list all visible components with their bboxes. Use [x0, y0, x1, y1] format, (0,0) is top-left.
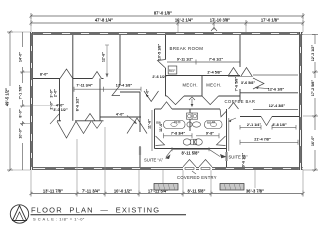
svg-text:RR: RR — [207, 121, 212, 125]
svg-text:12’-6”: 12’-6” — [101, 52, 105, 62]
sink counter left — [164, 121, 186, 129]
restroom block outline — [155, 109, 227, 149]
svg-text:SUITE “A”: SUITE “A” — [144, 158, 164, 163]
suite B north wall y116 — [240, 116, 261, 118]
title logo circle — [10, 205, 28, 223]
bottom dimension row — [30, 188, 305, 197]
svg-text:10’-2 1/4”: 10’-2 1/4” — [175, 18, 193, 23]
outer wall top — [30, 32, 303, 35]
corridor wall x140 — [139, 92, 141, 132]
corridor door near coffee bar — [229, 103, 239, 110]
suite B door swing — [261, 117, 272, 126]
svg-text:12’-4 3/8”: 12’-4 3/8” — [269, 104, 286, 108]
svg-text:36’-3 7/8”: 36’-3 7/8” — [246, 188, 264, 193]
svg-text:COFFEE BAR: COFFEE BAR — [225, 99, 256, 104]
interior wall horizontal y117 — [100, 116, 141, 118]
toilets — [183, 139, 202, 145]
mech divider wall x206 — [201, 76, 203, 97]
restroom top-left door swing — [144, 91, 159, 102]
svg-text:3’-6 5/8”: 3’-6 5/8” — [241, 81, 256, 85]
svg-text:17’-2 5/8”: 17’-2 5/8” — [311, 80, 315, 97]
svg-text:17’-10 3/8”: 17’-10 3/8” — [210, 18, 230, 23]
break room door swing — [158, 60, 166, 69]
water heater boxes — [187, 113, 198, 119]
svg-text:11’-6”: 11’-6” — [147, 119, 151, 129]
svg-text:8’-0”: 8’-0” — [40, 73, 48, 77]
top extension lines — [31, 16, 303, 32]
center lav fixtures — [187, 122, 201, 127]
svg-text:16’-0”: 16’-0” — [311, 136, 315, 146]
left inner dimension column — [19, 32, 31, 170]
restroom center wall — [189, 109, 191, 131]
restroom bottom corner door swings — [156, 136, 165, 146]
dim 21-4 7/8 — [240, 138, 298, 145]
svg-text:7’-6 5/8”: 7’-6 5/8” — [234, 77, 238, 92]
svg-text:10’-0”: 10’-0” — [19, 128, 23, 138]
interior wall horizontal y77.5 — [33, 78, 60, 80]
svg-text:17’-0 1/8”: 17’-0 1/8” — [261, 18, 279, 23]
SUITE B label — [229, 155, 249, 160]
svg-text:9’-8”: 9’-8” — [206, 132, 214, 136]
svg-text:87’-0 1/8”: 87’-0 1/8” — [154, 11, 172, 16]
restroom top-right door swing — [220, 109, 227, 117]
small door swing y77 — [92, 72, 101, 79]
svg-text:8’-6 1/2”: 8’-6 1/2” — [76, 97, 80, 112]
svg-text:SUITE “B”: SUITE “B” — [229, 155, 249, 160]
REF box — [168, 66, 177, 74]
svg-text:10’-0 1/2”: 10’-0 1/2” — [114, 188, 132, 193]
svg-text:3’-0”: 3’-0” — [50, 89, 54, 97]
svg-text:21’-4 7/8”: 21’-4 7/8” — [254, 138, 271, 142]
suite separation walls — [226, 149, 228, 168]
svg-text:10’-5 1/8”: 10’-5 1/8” — [158, 44, 162, 61]
interior dim line y89 — [74, 83, 141, 91]
outer wall bottom — [30, 167, 303, 170]
svg-text:12’-6 1/8”: 12’-6 1/8” — [268, 88, 285, 92]
svg-text:7’-11 3/4”: 7’-11 3/4” — [82, 188, 100, 193]
coffee bar double door — [228, 76, 253, 78]
mech bottom wall y105.5 — [166, 95, 168, 97]
svg-text:4’-0”: 4’-0” — [116, 113, 124, 117]
svg-text:2’-4 5/8”: 2’-4 5/8” — [207, 71, 222, 75]
svg-text:7’-6 1/2”: 7’-6 1/2” — [209, 57, 224, 61]
svg-text:2’-6 1/2”: 2’-6 1/2” — [152, 75, 167, 79]
svg-text:9’-11 1/2”: 9’-11 1/2” — [177, 57, 193, 61]
caret mark on top wall — [211, 28, 217, 32]
dim 8-0 left room — [40, 73, 48, 77]
svg-text:MECH.: MECH. — [183, 82, 199, 87]
break room left wall x165 — [165, 35, 167, 60]
svg-text:8’-11 5/8”: 8’-11 5/8” — [182, 150, 200, 155]
restroom inner dim line — [164, 132, 220, 139]
bottom extension lines — [31, 127, 303, 196]
svg-text:BREAK ROOM: BREAK ROOM — [170, 46, 204, 51]
svg-text:7’-8 3/4”: 7’-8 3/4” — [171, 132, 186, 136]
break room bottom wall y75.5 — [166, 75, 241, 77]
mech left wall x165 lower — [165, 76, 167, 97]
SUITE A label — [144, 158, 164, 163]
outer wall left — [30, 32, 33, 170]
wall x140 corridor — [120, 91, 140, 93]
door swing left room — [60, 69, 73, 79]
porch column right — [220, 184, 244, 191]
svg-text:MECH.: MECH. — [206, 82, 222, 87]
interior wall vertical x100 — [99, 79, 101, 121]
mech door swings — [167, 96, 184, 105]
svg-text:S C A L E : 1/8” = 1’-0”: S C A L E : 1/8” = 1’-0” — [33, 217, 85, 222]
rotated dim 12-6 — [101, 45, 109, 78]
interior wall horizontal y121.5 — [57, 120, 61, 122]
svg-text:8’-8 1/8”: 8’-8 1/8” — [272, 123, 287, 127]
door leaf x59 wall — [50, 114, 60, 125]
suite label dimension with arrows — [165, 147, 227, 159]
top dimension row 1 overall — [30, 11, 305, 19]
svg-text:11’-6”: 11’-6” — [159, 122, 163, 132]
outer wall right — [299, 32, 302, 170]
svg-text:4’-0”: 4’-0” — [146, 89, 150, 97]
svg-text:17’-4 1/8”: 17’-4 1/8” — [116, 83, 133, 87]
coffee bar counter lines — [253, 74, 298, 76]
interior wall vertical x72 — [72, 35, 74, 121]
svg-text:2’-0”: 2’-0” — [54, 89, 58, 97]
svg-text:12’-3 1/2”: 12’-3 1/2” — [311, 45, 315, 62]
door swing y120.8 apex up — [85, 114, 95, 121]
svg-text:REF: REF — [169, 69, 176, 73]
svg-text:2’-1 1/4”: 2’-1 1/4” — [247, 123, 262, 127]
svg-text:3’-0 1/2”: 3’-0 1/2” — [53, 108, 68, 112]
title underline — [31, 214, 187, 216]
svg-text:47’-8 1/4”: 47’-8 1/4” — [95, 18, 113, 23]
svg-text:7’-1 7/8”: 7’-1 7/8” — [19, 85, 23, 100]
door swing y121 down — [57, 121, 76, 138]
svg-text:COVERED ENTRY: COVERED ENTRY — [177, 175, 217, 180]
caret with down arrow corridor — [189, 97, 195, 100]
entry door swings inside — [183, 160, 196, 167]
porch side edges — [162, 170, 164, 188]
svg-text:13’-11 7/8”: 13’-11 7/8” — [43, 188, 63, 193]
right dimension column — [303, 35, 318, 172]
closet shelf line — [33, 105, 60, 107]
door swing x120 bottom — [112, 86, 120, 96]
interior wall vertical x59 — [59, 79, 61, 121]
left outer dimension 49-5 1/2 — [5, 31, 31, 172]
interior wall vertical x120 — [119, 35, 121, 86]
coffee bar left wall x240 — [239, 35, 241, 67]
corridor leader arrow — [230, 118, 236, 121]
sink counter right — [205, 121, 223, 129]
entry doors in bottom wall — [183, 167, 212, 170]
svg-text:49’-5 1/2”: 49’-5 1/2” — [5, 88, 10, 106]
svg-text:8’-11 5/8”: 8’-11 5/8” — [188, 188, 206, 193]
svg-text:14’-0”: 14’-0” — [19, 52, 23, 62]
svg-text:2’-0”: 2’-0” — [50, 101, 54, 109]
covered entry leader — [192, 171, 196, 174]
break room dim line y59 — [167, 57, 240, 74]
porch column left — [154, 184, 178, 191]
svg-text:FLOOR PLAN — EXISTING: FLOOR PLAN — EXISTING — [31, 206, 160, 215]
restroom side dim lines — [151, 110, 153, 151]
svg-text:8’-0”: 8’-0” — [19, 109, 23, 117]
top dimension row 2 segments — [30, 18, 305, 26]
svg-text:7’-11 3/4”: 7’-11 3/4” — [76, 83, 92, 87]
